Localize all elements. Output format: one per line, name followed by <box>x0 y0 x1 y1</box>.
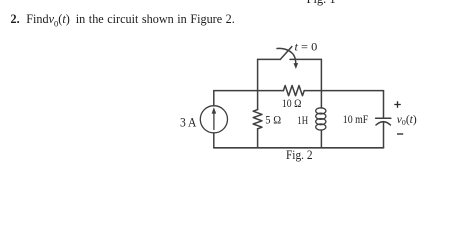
svg-text:t = 0: t = 0 <box>295 40 318 54</box>
current source 3A (circle) <box>200 106 227 133</box>
wire: left branch lower <box>213 133 215 148</box>
wire: inductor branch lower <box>320 130 322 148</box>
svg-text:1H: 1H <box>297 113 308 127</box>
wire: switch loop top-left <box>258 58 281 60</box>
minus polarity sign <box>397 133 403 135</box>
wire: left branch upper <box>213 91 215 106</box>
resistor 5 ohm (vertical zigzag) <box>253 110 262 129</box>
svg-text:10 mF: 10 mF <box>343 112 369 126</box>
wire: right branch lower <box>383 122 385 147</box>
resistor 10 ohm (zigzag in top wire) <box>283 86 304 96</box>
svg-text:v0(t): v0(t) <box>397 114 417 127</box>
inductor 1H coil loop 4 <box>316 124 326 130</box>
plus polarity sign <box>394 101 401 107</box>
capacitor 10 mF top plate <box>376 117 391 119</box>
svg-text:Fig. 1: Fig. 1 <box>307 0 336 6</box>
current source arrow (upward) <box>213 112 215 130</box>
switch motion arc <box>277 48 296 63</box>
inductor 1H coil loop 3 <box>316 119 326 125</box>
wire: 5 ohm branch lower <box>257 129 259 148</box>
wire: top-right horizontal segment <box>304 90 383 92</box>
wire: switch loop top-right <box>290 58 321 60</box>
wire: right branch upper <box>383 91 385 119</box>
inductor 1H coil loop 1 <box>316 108 326 114</box>
svg-text:10 Ω: 10 Ω <box>282 96 302 110</box>
wire: bottom horizontal <box>214 147 384 149</box>
current source arrowhead <box>212 107 217 113</box>
wire: inductor branch upper <box>320 91 322 108</box>
svg-text:3 A: 3 A <box>180 115 197 130</box>
switch arrowhead (down) <box>294 63 299 69</box>
wire: top-left horizontal segment <box>214 90 284 92</box>
switch blade (open, t=0) <box>280 47 292 60</box>
svg-text:5 Ω: 5 Ω <box>265 112 281 126</box>
wire: switch loop left stub <box>257 59 259 90</box>
title text <box>11 13 235 29</box>
capacitor 10 mF curved bottom plate <box>376 122 390 125</box>
wire: switch loop right stub <box>320 59 322 90</box>
svg-text:Fig. 2: Fig. 2 <box>286 148 313 162</box>
wire: 5 ohm branch upper <box>257 91 259 110</box>
inductor 1H coil loop 2 <box>316 113 326 119</box>
